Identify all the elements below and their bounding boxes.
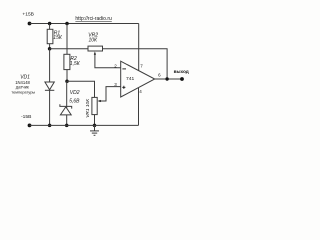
ground — [90, 125, 99, 135]
node: junction below R2 — [65, 80, 69, 84]
+15V terminal — [22, 12, 34, 26]
svg-text:температуры: температуры — [11, 89, 35, 94]
svg-text:http://rci-radio.ru: http://rci-radio.ru — [75, 16, 112, 22]
wire: VD1 branch — [49, 49, 51, 126]
wire: pin4 riser — [138, 88, 140, 126]
wire: -15V bottom rail — [30, 124, 139, 126]
node: VD2 to -15V rail — [65, 124, 69, 128]
wire: R2 drop from top rail — [66, 24, 68, 55]
zener diode VD2 — [60, 90, 80, 115]
link http://rci-radio.ru — [75, 16, 112, 22]
diode VD1 — [11, 74, 54, 94]
svg-text:VD2: VD2 — [70, 90, 80, 96]
svg-text:+15В: +15В — [22, 12, 34, 18]
node: junction R1/top rail — [48, 22, 52, 26]
-15V terminal — [21, 114, 31, 127]
svg-text:выход: выход — [174, 69, 189, 74]
resistor R1 — [47, 24, 63, 49]
node: output junction — [165, 77, 168, 80]
wire: op-amp pin 3 to VR1 wiper — [98, 87, 121, 103]
node: junction R2/top rail — [65, 22, 69, 26]
resistor R2 — [64, 54, 81, 81]
node: VR1 to -15V rail — [93, 124, 97, 128]
svg-text:5,6В: 5,6В — [69, 99, 80, 105]
svg-text:-15В: -15В — [21, 114, 31, 120]
op-amp U1 741 — [114, 61, 161, 97]
node: junction below R1 — [48, 47, 52, 51]
wire: pin7 drop from rail — [138, 24, 140, 71]
svg-text:10К: 10К — [89, 38, 99, 44]
wire: R2 junction to VR1 top — [67, 81, 95, 97]
svg-text:15К: 15К — [53, 35, 63, 41]
potentiometer VR2 — [88, 33, 103, 51]
wire: +15V top rail — [30, 23, 139, 25]
potentiometer VR1 — [85, 97, 97, 125]
wire: output — [155, 78, 182, 80]
wire: VR2 right to output junction — [103, 49, 168, 79]
node: VD1 to -15V rail — [48, 124, 52, 128]
svg-text:741: 741 — [126, 76, 134, 82]
svg-text:VR1 10К: VR1 10К — [85, 98, 91, 118]
wire: VR2 wiper to op-amp pin 2 — [94, 52, 121, 68]
wire: node A to VR2 left — [50, 48, 88, 50]
output terminal — [174, 69, 189, 81]
svg-text:1,5К: 1,5К — [70, 61, 81, 67]
wire: VD2 branch — [66, 81, 68, 125]
